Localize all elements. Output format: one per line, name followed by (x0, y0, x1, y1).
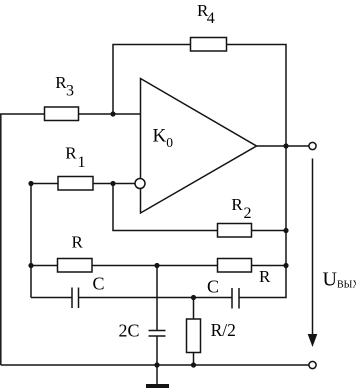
node dot R1 right (110, 181, 115, 186)
svg-text:4: 4 (207, 10, 215, 27)
node dot R1 left (28, 181, 33, 186)
svg-text:R/2: R/2 (211, 320, 236, 340)
svg-text:2C: 2C (119, 321, 140, 341)
resistor R4 (191, 38, 227, 52)
resistor R left (58, 259, 93, 273)
node dot bottom 2C (154, 362, 159, 367)
node dot R row right (283, 263, 288, 268)
svg-text:C: C (207, 277, 219, 297)
svg-text:0: 0 (166, 135, 173, 150)
capacitor C right (231, 288, 233, 309)
wire 2C branch (156, 266, 158, 331)
wire bottom row (1, 364, 309, 366)
resistor R/2 (187, 319, 201, 353)
op-amp U1 (141, 79, 257, 214)
node dot output (283, 143, 288, 148)
node dot R row mid (154, 263, 159, 268)
wire arrow U out (312, 159, 314, 337)
arrowhead (308, 334, 318, 347)
ground (156, 365, 158, 385)
capacitor C left (71, 288, 73, 309)
terminal output top (309, 142, 316, 149)
wire op-amp output (257, 145, 310, 147)
resistor R1 (58, 177, 93, 191)
svg-text:UВЫХ: UВЫХ (323, 269, 356, 291)
node dot R row left (28, 263, 33, 268)
wire R3 row (1, 114, 141, 365)
ground bar (146, 384, 169, 388)
terminal output bottom (309, 361, 316, 368)
node dot R3/R4 junction (110, 111, 115, 116)
wire R row (31, 265, 286, 267)
resistor R3 (45, 107, 79, 121)
svg-text:C: C (93, 274, 105, 294)
node dot bottom R/2 (191, 362, 196, 367)
svg-text:R: R (72, 233, 84, 252)
wire R/2 branch (193, 298, 195, 320)
resistor R2 (218, 224, 252, 238)
svg-text:K: K (153, 126, 167, 147)
svg-text:R: R (231, 195, 243, 214)
wire top row R4 loop (113, 45, 286, 147)
svg-text:3: 3 (66, 82, 74, 99)
svg-text:R: R (259, 267, 271, 286)
node dot C row mid (191, 295, 196, 300)
resistor R right (218, 259, 252, 273)
svg-text:R: R (65, 144, 77, 163)
wire R2 row (113, 184, 286, 231)
node dot R2 right (283, 228, 288, 233)
svg-text:1: 1 (78, 154, 86, 171)
wire C row (31, 297, 72, 299)
inverting input circle (135, 179, 145, 189)
svg-text:2: 2 (244, 205, 252, 222)
capacitor 2C (149, 330, 166, 332)
wire R1 row (31, 184, 135, 298)
